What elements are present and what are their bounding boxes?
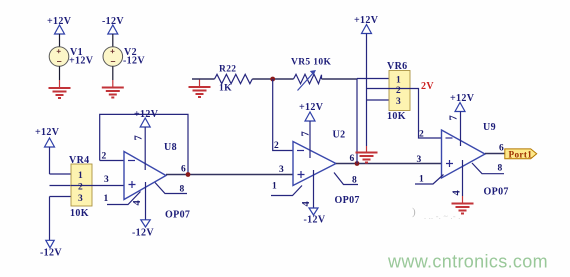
svg-text:OP07: OP07 (165, 210, 190, 221)
U9 +12V (pin 7) (449, 93, 475, 146)
ground (V2) (102, 88, 124, 98)
svg-text:4: 4 (452, 190, 463, 196)
potentiometer VR5 (291, 58, 331, 91)
wire VR6 pin1 (357, 78, 389, 80)
svg-text:-12V: -12V (123, 56, 145, 67)
svg-text:+12V: +12V (35, 127, 60, 138)
wire U8 pin2 (100, 160, 124, 162)
wire VR4 pin3 (50, 196, 72, 198)
svg-text:7: 7 (134, 135, 145, 141)
U2 -12V (pin 4) (301, 170, 326, 226)
svg-text:7: 7 (301, 131, 312, 137)
node (U8 out / feedback) (186, 172, 191, 177)
svg-text:3: 3 (396, 97, 401, 107)
ground (V1) (49, 88, 71, 98)
U9 pin 4 to ground (452, 160, 463, 204)
wire U8 pin8 (155, 183, 187, 195)
wire VR4 pin2 (50, 185, 72, 187)
svg-text:2: 2 (396, 86, 401, 96)
svg-text:2: 2 (274, 141, 279, 151)
svg-text:+12V: +12V (69, 56, 94, 67)
svg-text:1: 1 (419, 175, 424, 185)
svg-text:6: 6 (499, 144, 504, 154)
wire VR4 wiper to U8 pin3 (92, 185, 124, 187)
voltage source V2 (102, 16, 145, 87)
svg-text:1: 1 (78, 171, 83, 181)
ground (VR6) (356, 153, 378, 163)
port Port1 (505, 149, 537, 159)
svg-text:2: 2 (102, 152, 107, 162)
svg-text:10K: 10K (387, 111, 406, 122)
wire U8 pin1 (104, 192, 141, 205)
svg-text:-12V: -12V (132, 228, 154, 239)
svg-text:3: 3 (279, 165, 284, 175)
op-amp U2 (293, 130, 360, 207)
svg-text:10K: 10K (70, 208, 89, 219)
svg-text:. .. -. ~ .- .: . .. -. ~ .- . (424, 212, 461, 221)
-12V rail (VR4) (40, 197, 62, 259)
svg-text:7: 7 (449, 115, 460, 121)
svg-text:2: 2 (419, 130, 424, 140)
node (R22/VR5/U2 pin2) (270, 77, 275, 82)
svg-text:R22: R22 (219, 65, 236, 75)
op-amp U9 (442, 122, 509, 198)
wire VR4 pin1 (50, 173, 72, 175)
wire U8 output to U2 pin3 (166, 174, 293, 176)
svg-text:1: 1 (272, 182, 277, 192)
svg-text:OP07: OP07 (484, 187, 509, 198)
voltage source V1 (47, 16, 94, 88)
svg-text:1: 1 (396, 76, 401, 86)
wire U9 pin8 (472, 163, 504, 174)
wire VR6 pin3 (367, 99, 390, 101)
svg-text:6: 6 (350, 154, 355, 164)
potentiometer VR6 (387, 61, 410, 122)
+12V rail (VR6) (354, 15, 379, 153)
svg-text:1: 1 (104, 194, 109, 204)
svg-text:U2: U2 (333, 130, 346, 141)
U2 +12V (pin 7) (299, 102, 324, 158)
op-amp U8 (124, 142, 190, 221)
svg-text:1K: 1K (219, 84, 232, 94)
svg-text:-12V: -12V (40, 248, 62, 259)
svg-text:4: 4 (301, 201, 312, 207)
wire VR5/VR6 pin1 down to U2 output (356, 79, 358, 164)
svg-text:8: 8 (352, 176, 357, 186)
svg-text:3: 3 (78, 194, 83, 204)
svg-text:Port1: Port1 (509, 149, 533, 159)
svg-text:2: 2 (78, 183, 83, 193)
node (U2 out / VR5-VR6) (355, 161, 360, 166)
wire U2 output to U9 pin3 (336, 163, 442, 165)
svg-text:2V: 2V (421, 81, 434, 92)
svg-text:OP07: OP07 (335, 195, 360, 206)
svg-text:+12V: +12V (450, 93, 475, 104)
U8 -12V (pin 4) (132, 182, 154, 239)
svg-text:3: 3 (104, 175, 109, 185)
svg-text:U9: U9 (483, 122, 496, 133)
wire U2 pin1 (271, 182, 302, 196)
svg-text:8: 8 (180, 185, 185, 195)
svg-text:8: 8 (498, 164, 503, 174)
wire U8 feedback (100, 114, 188, 174)
+12V rail (VR4) (35, 127, 60, 174)
potentiometer VR4 (69, 155, 92, 219)
ground (R22) (199, 79, 201, 87)
ground (U9) (452, 204, 474, 214)
U8 +12V (pin 7) (134, 109, 159, 170)
svg-text:U8: U8 (164, 142, 177, 153)
wire R22 to junction (252, 78, 293, 80)
svg-text:+12V: +12V (134, 109, 159, 120)
wire U2 pin8 (334, 173, 358, 186)
wire VR6 pin2 (wiper) to U9 pin2 (367, 88, 390, 90)
svg-text:-12V: -12V (304, 215, 326, 226)
svg-text:+12V: +12V (299, 102, 324, 113)
wire U9 output (485, 153, 505, 155)
svg-text:www.cntronics.com: www.cntronics.com (387, 252, 548, 272)
svg-text:): ) (412, 206, 416, 218)
wire VR5 to corner (322, 78, 358, 80)
wire junction down to U2 pin2 (273, 79, 293, 151)
svg-text:3: 3 (417, 155, 422, 165)
wire U9 pin1 (415, 175, 444, 185)
svg-text:6: 6 (181, 165, 186, 175)
resistor R22 (192, 65, 252, 94)
svg-text:VR5 10K: VR5 10K (291, 58, 331, 68)
svg-text:4: 4 (132, 200, 143, 206)
